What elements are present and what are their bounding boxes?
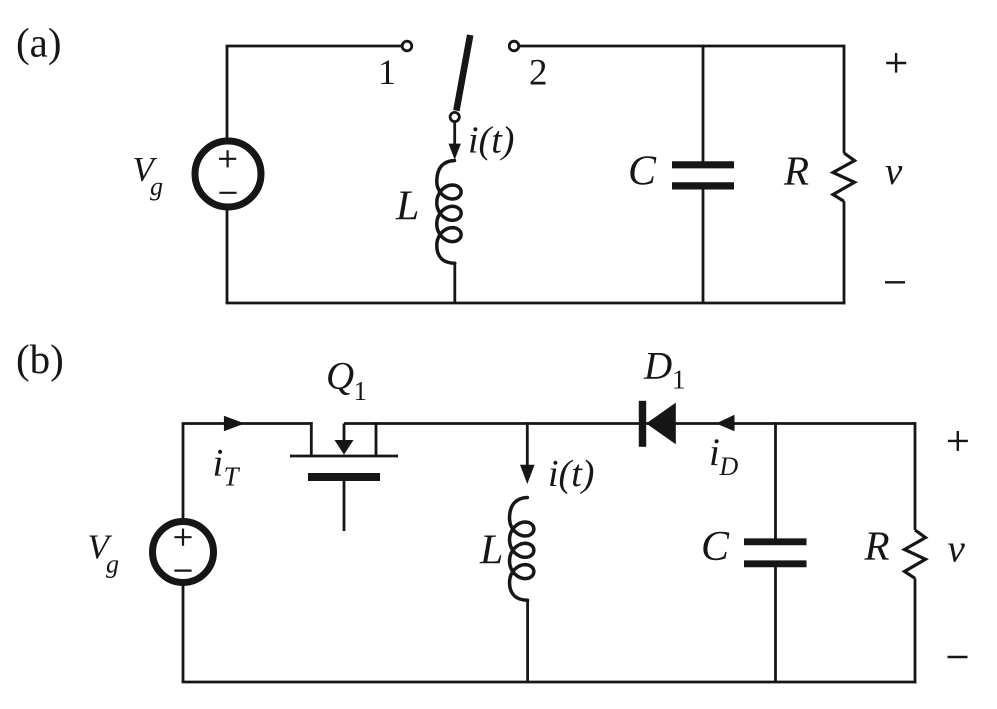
svg-text:i: i: [709, 431, 720, 474]
node: switch terminal 1: [402, 41, 412, 51]
inductor L (a): [437, 161, 461, 264]
label + output (a): [886, 53, 906, 73]
svg-text:L: L: [395, 184, 419, 230]
wire: capacitor branch top (a): [702, 45, 705, 162]
label − output (b): [948, 656, 968, 658]
wire: (b) left rail top from Vg to top-left corner and to MOSFET drain: [183, 424, 313, 520]
svg-text:T: T: [224, 462, 241, 492]
label + inside Vg (b): [174, 529, 191, 546]
svg-text:D: D: [643, 345, 672, 388]
svg-text:i(t): i(t): [548, 453, 594, 495]
wire: capacitor branch top (b): [774, 422, 777, 539]
diode D1: cathode bar: [639, 401, 646, 447]
wire: bottom rail (a): [226, 302, 846, 305]
svg-text:i(t): i(t): [468, 120, 514, 162]
wire: (a) left rail top from Vg to top-left corner: [226, 46, 229, 138]
svg-text:(b): (b): [16, 336, 64, 382]
transistor Q1 MOSFET: drain lead: [310, 422, 313, 456]
voltage source Vg (a): [195, 141, 261, 207]
current arrow i(t) (b): [520, 465, 535, 484]
wire: right rail top (a): [843, 45, 846, 153]
svg-text:(a): (a): [16, 20, 62, 66]
switch blade SPDT: [456, 35, 470, 111]
svg-text:Q: Q: [326, 355, 354, 398]
svg-text:i: i: [213, 442, 224, 485]
svg-text:v: v: [948, 527, 966, 570]
svg-text:1: 1: [672, 365, 686, 395]
wire: inductor bottom to bottom rail (a): [453, 263, 456, 305]
label + inside Vg (a): [219, 150, 236, 167]
wire: right rail bottom (a): [843, 201, 846, 304]
svg-text:C: C: [628, 149, 657, 195]
wire: (a) left rail bottom from Vg to bottom rail: [226, 210, 229, 303]
label + output (b): [948, 431, 968, 451]
capacitor C (b): [744, 538, 807, 545]
svg-text:v: v: [885, 150, 903, 193]
transistor Q1 MOSFET: gate lead: [343, 481, 346, 531]
wire: (b) top rail from MOSFET source to right rail: [344, 422, 915, 425]
wire: (a) top rail from terminal 2 to right rail: [519, 45, 844, 48]
transistor Q1 MOSFET: arrow: [343, 424, 346, 442]
current arrow i(t) (a): [449, 144, 461, 160]
wire: switch pivot down to inductor (a): [453, 122, 456, 146]
svg-text:R: R: [864, 523, 890, 569]
svg-text:L: L: [479, 528, 503, 574]
svg-text:C: C: [701, 524, 730, 570]
svg-text:g: g: [106, 550, 119, 579]
node: switch terminal 2: [509, 41, 519, 51]
wire: capacitor branch bottom (b): [774, 567, 777, 683]
wire: right rail top (b): [914, 422, 917, 530]
resistor R (b): [905, 530, 926, 578]
transistor Q1 MOSFET: source lead: [375, 422, 378, 456]
svg-text:D: D: [719, 452, 739, 481]
wire: inductor bottom to bottom rail (b): [526, 600, 529, 684]
svg-text:R: R: [783, 148, 809, 194]
node: switch pivot: [450, 112, 459, 121]
label − inside Vg (a): [219, 192, 236, 194]
resistor R (a): [833, 153, 855, 201]
wire: inductor branch top (b): [526, 422, 529, 466]
label − inside Vg (b): [174, 569, 191, 571]
capacitor C (a): [672, 161, 734, 168]
current arrow iT (b): [224, 416, 245, 432]
svg-text:1: 1: [378, 52, 396, 92]
wire: (a) top-left rail to switch terminal 1: [226, 45, 402, 48]
wire: right rail bottom (b): [914, 578, 917, 683]
svg-text:g: g: [150, 172, 163, 201]
diode D1: triangle: [646, 403, 676, 445]
inductor L (b): [510, 498, 534, 601]
current arrow iD (b): [716, 415, 735, 432]
voltage source Vg (b): [153, 522, 214, 583]
label − output (a): [885, 281, 905, 283]
svg-text:2: 2: [529, 53, 548, 94]
transistor Q1 MOSFET: channel: [290, 455, 398, 458]
wire: bottom rail (b): [182, 681, 917, 684]
wire: (b) left rail bottom from Vg to bottom rail: [182, 585, 185, 682]
transistor Q1 MOSFET: gate bar: [308, 473, 380, 481]
wire: capacitor branch bottom (a): [702, 189, 705, 304]
svg-text:1: 1: [354, 376, 368, 406]
